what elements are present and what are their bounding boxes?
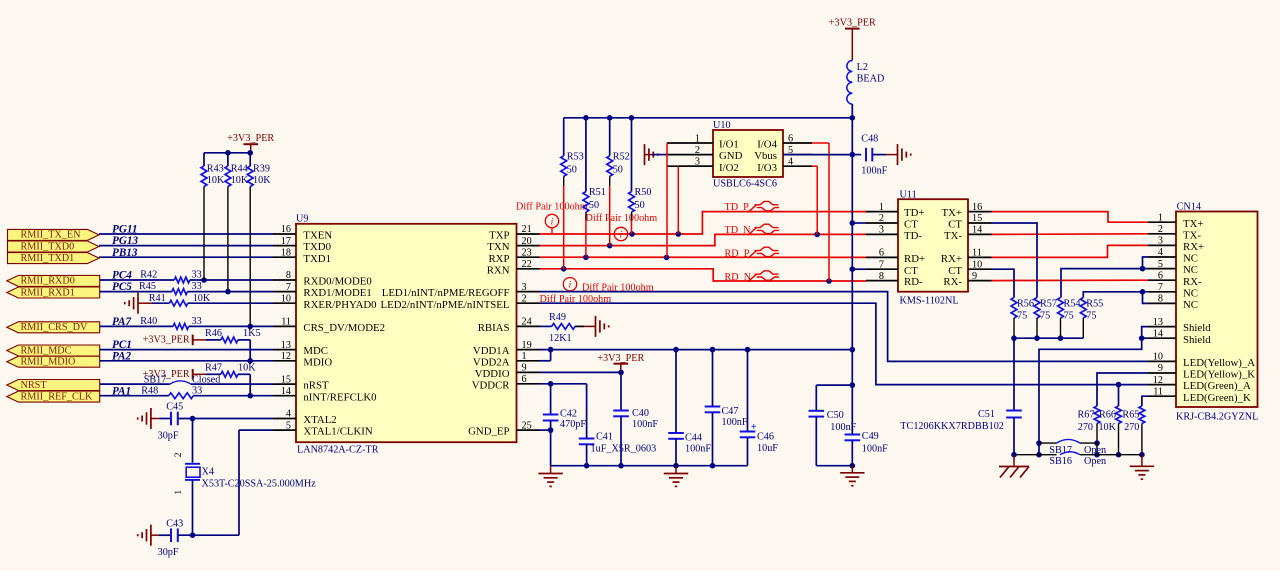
wire termination rail <box>564 115 853 121</box>
svg-text:U11: U11 <box>900 189 917 200</box>
resistor R43 10K <box>201 153 225 280</box>
ground (earth) under C49 <box>840 466 864 486</box>
svg-text:Open: Open <box>1084 456 1106 467</box>
power +3V3_PER (VDDIO) <box>597 353 644 373</box>
svg-text:CT: CT <box>948 265 962 277</box>
ground at C43 (earth) <box>138 525 159 546</box>
svg-text:LED(Green)_K: LED(Green)_K <box>1183 392 1251 404</box>
svg-text:15: 15 <box>281 374 291 385</box>
wire L2 to rails <box>850 104 856 157</box>
svg-text:R49: R49 <box>549 312 566 323</box>
svg-text:50: 50 <box>567 164 577 175</box>
svg-text:i: i <box>551 217 554 227</box>
wire U10 I/O1 to RD_P <box>666 143 668 257</box>
wire LED1 to LED(Yellow)_A <box>540 292 1149 362</box>
svg-text:CRS_DV/MODE2: CRS_DV/MODE2 <box>303 322 385 334</box>
svg-text:TD_P: TD_P <box>725 202 750 213</box>
wire Shield down <box>1036 338 1142 457</box>
svg-text:MDIO: MDIO <box>303 356 332 368</box>
svg-text:50: 50 <box>589 200 599 211</box>
svg-text:MDC: MDC <box>303 345 328 357</box>
svg-text:5: 5 <box>286 420 291 431</box>
ground (earth) under R65 <box>1130 455 1154 480</box>
svg-text:RXD0/MODE0: RXD0/MODE0 <box>303 276 371 288</box>
svg-text:R48: R48 <box>141 386 158 397</box>
svg-text:RBIAS: RBIAS <box>478 322 510 334</box>
svg-text:i: i <box>620 230 623 240</box>
svg-text:16: 16 <box>281 224 291 235</box>
resistor R42 33 <box>140 270 201 283</box>
svg-text:XTAL1/CLKIN: XTAL1/CLKIN <box>303 426 373 438</box>
capacitor C47 100nF <box>705 350 748 466</box>
capacitor C49 100nF <box>845 385 889 468</box>
resistor R50 50 <box>629 118 652 234</box>
svg-text:13: 13 <box>1153 317 1163 328</box>
diff pair marker 2 <box>586 213 658 241</box>
capacitor C44 100nF <box>668 350 711 466</box>
svg-text:6: 6 <box>879 248 884 259</box>
svg-text:i: i <box>569 281 572 291</box>
svg-text:VDDCR: VDDCR <box>472 379 511 391</box>
wire NC8 <box>1140 289 1148 303</box>
svg-text:14: 14 <box>281 386 291 397</box>
svg-text:CT: CT <box>904 219 918 231</box>
svg-text:C51: C51 <box>978 409 995 420</box>
svg-text:C43: C43 <box>166 519 183 530</box>
wire nRST left <box>100 383 170 385</box>
svg-text:C45: C45 <box>166 402 183 413</box>
svg-text:+3V3_PER: +3V3_PER <box>143 335 190 346</box>
svg-text:30pF: 30pF <box>158 430 179 441</box>
svg-text:9: 9 <box>1158 363 1163 374</box>
svg-text:R56: R56 <box>1017 299 1034 310</box>
port RMII_MDC <box>7 345 100 356</box>
svg-text:1: 1 <box>695 133 700 144</box>
svg-text:nRST: nRST <box>303 380 329 392</box>
ground at U10 pin2 (earth) <box>645 144 668 165</box>
wire RX+ <box>992 245 1149 257</box>
resistor R66 10K <box>1098 385 1121 458</box>
svg-text:RX-: RX- <box>943 276 962 288</box>
svg-text:20: 20 <box>522 236 532 247</box>
svg-text:RMII_MDC: RMII_MDC <box>21 345 72 356</box>
wire nRST right <box>191 383 273 385</box>
wire RX- <box>992 279 1149 281</box>
diff pair marker 1 <box>516 202 588 234</box>
wire VDD2A <box>540 350 551 361</box>
wire +3V3 vertical <box>850 155 856 353</box>
svg-text:6: 6 <box>522 374 527 385</box>
svg-text:33: 33 <box>192 316 202 327</box>
svg-text:10K: 10K <box>231 175 249 186</box>
svg-text:100nF: 100nF <box>722 417 748 428</box>
svg-text:TXD1: TXD1 <box>303 253 331 265</box>
net label PA2 <box>112 350 131 362</box>
op-amp CN14 KRJ-CB4.2GYZNL (RJ45) <box>1148 201 1258 422</box>
svg-text:RX+: RX+ <box>941 253 962 265</box>
svg-text:9: 9 <box>972 271 977 282</box>
svg-text:2: 2 <box>879 213 884 224</box>
ground at RXER (earth) <box>125 293 152 314</box>
wire XTAL2 + junction <box>180 416 273 422</box>
svg-text:RD-: RD- <box>904 276 923 288</box>
svg-text:VDD2A: VDD2A <box>473 356 510 368</box>
capacitor C42 470pF <box>543 384 587 466</box>
svg-text:50: 50 <box>635 200 645 211</box>
svg-text:100nF: 100nF <box>685 443 711 454</box>
capacitor C51 TC1206KKX7RDBB102 <box>900 338 1022 455</box>
svg-text:NRST: NRST <box>21 380 48 391</box>
svg-text:NC: NC <box>1183 287 1198 299</box>
svg-text:RX-: RX- <box>1183 276 1202 288</box>
capacitor C45 30pF <box>158 402 184 442</box>
wire TXD0 <box>99 245 273 247</box>
svg-text:R41: R41 <box>149 293 166 304</box>
capacitor C46 10uF <box>740 350 779 466</box>
svg-text:270: 270 <box>1078 422 1093 433</box>
svg-text:15: 15 <box>972 213 982 224</box>
svg-text:TD-: TD- <box>904 230 922 242</box>
svg-text:R65: R65 <box>1122 410 1139 421</box>
svg-text:10K: 10K <box>238 362 256 373</box>
svg-text:10K: 10K <box>1098 422 1116 433</box>
svg-text:Shield: Shield <box>1183 322 1211 334</box>
svg-text:17: 17 <box>281 236 291 247</box>
svg-text:3: 3 <box>522 282 527 293</box>
svg-text:GND: GND <box>719 150 743 162</box>
wire MDIO + junction R46 <box>100 358 273 364</box>
svg-text:XTAL2: XTAL2 <box>303 414 336 426</box>
resistor R55 75 <box>1080 298 1103 339</box>
svg-text:LED(Green)_A: LED(Green)_A <box>1183 380 1251 392</box>
svg-text:R57: R57 <box>1040 299 1057 310</box>
wire RD_P (RXP) <box>540 254 867 260</box>
resistor R41 10K <box>149 293 211 306</box>
svg-text:RMII_CRS_DV: RMII_CRS_DV <box>21 322 88 333</box>
svg-text:Vbus: Vbus <box>754 150 777 162</box>
svg-text:R67: R67 <box>1078 410 1095 421</box>
net label PC5 <box>112 281 132 293</box>
net label PC1 <box>112 339 132 351</box>
wire RD_N (RXN) <box>540 266 867 284</box>
svg-text:Closed: Closed <box>192 375 220 386</box>
wire pull-up rail <box>204 150 253 156</box>
svg-text:RD_P: RD_P <box>725 249 750 260</box>
net label PG11 <box>112 224 137 236</box>
wire C50 branch <box>816 350 855 388</box>
svg-text:TXN: TXN <box>487 241 509 253</box>
svg-text:100nF: 100nF <box>861 165 887 176</box>
svg-text:BEAD: BEAD <box>857 73 885 84</box>
resistor R65 270 <box>1122 396 1148 457</box>
resistor R40 33 <box>140 316 201 329</box>
svg-text:+3V3_PER: +3V3_PER <box>227 133 274 144</box>
svg-text:RXER/PHYAD0: RXER/PHYAD0 <box>303 299 376 311</box>
wire termination bottoms <box>1011 335 1083 341</box>
svg-text:LED(Yellow)_K: LED(Yellow)_K <box>1183 369 1255 381</box>
wire TD_N (TXN) <box>540 232 867 249</box>
svg-text:USBLC6-4SC6: USBLC6-4SC6 <box>713 179 777 190</box>
capacitor C50 100nF <box>809 385 857 466</box>
svg-text:I/O3: I/O3 <box>757 162 777 174</box>
port RMII_MDIO <box>7 356 100 367</box>
svg-text:270: 270 <box>1124 422 1139 433</box>
svg-text:C49: C49 <box>862 431 879 442</box>
resistor R39 10K <box>247 153 271 327</box>
svg-text:TD+: TD+ <box>904 207 924 219</box>
resistor R45 33 <box>139 281 202 294</box>
wire NC7 to R55 <box>1083 292 1148 298</box>
svg-text:+3V3_PER: +3V3_PER <box>829 17 876 28</box>
resistor R67 270 <box>1078 373 1148 458</box>
wire VDD rail <box>540 347 853 353</box>
svg-text:13: 13 <box>281 340 291 351</box>
op-amp U10 USBLC6-4SC6 (ESD) <box>667 120 812 190</box>
svg-text:6: 6 <box>788 133 793 144</box>
svg-text:KMS-1102NL: KMS-1102NL <box>900 295 959 306</box>
svg-text:4: 4 <box>286 409 291 420</box>
svg-text:VDDIO: VDDIO <box>475 368 510 380</box>
svg-text:TXP: TXP <box>489 230 509 242</box>
resistor R52 50 <box>607 118 630 246</box>
wire C43 to XTAL1 <box>180 430 273 538</box>
svg-text:470pF: 470pF <box>560 419 586 430</box>
wire R46 to MDIO <box>249 340 251 361</box>
svg-text:RMII_TXD0: RMII_TXD0 <box>21 241 75 252</box>
wire ground rail mid <box>551 463 748 469</box>
port RMII_REF_CLK <box>7 391 100 402</box>
wire VDDIO <box>540 370 624 376</box>
wire MDC <box>100 349 273 351</box>
svg-text:11: 11 <box>281 317 291 328</box>
svg-text:R46: R46 <box>205 328 222 339</box>
svg-text:VDD1A: VDD1A <box>473 345 510 357</box>
wire LED2 to LED(Green)_A <box>540 303 1149 387</box>
svg-text:LED(Yellow)_A: LED(Yellow)_A <box>1183 357 1255 369</box>
svg-text:RXN: RXN <box>487 264 510 276</box>
svg-text:I/O2: I/O2 <box>719 162 739 174</box>
svg-text:TX-: TX- <box>944 230 962 242</box>
svg-text:100nF: 100nF <box>632 419 658 430</box>
capacitor C41 1uF_X5R_0603 <box>579 384 656 466</box>
svg-text:75: 75 <box>1017 311 1027 322</box>
wire CT15 to R57 <box>992 223 1038 298</box>
svg-text:10: 10 <box>972 259 982 270</box>
svg-text:U10: U10 <box>713 120 731 131</box>
svg-text:C50: C50 <box>827 410 844 421</box>
label TD_N <box>725 224 780 236</box>
ground at R49 (earth) <box>584 316 609 337</box>
svg-text:U9: U9 <box>296 214 308 225</box>
svg-text:3: 3 <box>1158 236 1163 247</box>
svg-text:11: 11 <box>972 248 982 259</box>
svg-text:2: 2 <box>174 452 184 457</box>
wire RXD1 + junction R44 <box>100 289 273 295</box>
svg-text:7: 7 <box>879 259 884 270</box>
net label PB13 <box>112 247 138 259</box>
wire TD_P (TXP) <box>540 212 867 237</box>
label RD_N <box>725 271 780 283</box>
svg-text:TD_N: TD_N <box>725 225 752 236</box>
svg-text:11: 11 <box>1153 386 1163 397</box>
svg-text:TC1206KKX7RDBB102: TC1206KKX7RDBB102 <box>900 421 1004 432</box>
svg-text:R42: R42 <box>140 270 157 281</box>
svg-text:C46: C46 <box>757 432 774 443</box>
solder bridge SB16 Open <box>1014 452 1142 467</box>
svg-text:33: 33 <box>192 270 202 281</box>
op-amp U9 LAN8742A-CZ-TR (PHY IC) <box>273 214 540 456</box>
svg-text:10uF: 10uF <box>757 443 778 454</box>
wire C45 to crystal <box>192 419 194 463</box>
svg-text:KRJ-CB4.2GYZNL: KRJ-CB4.2GYZNL <box>1176 411 1258 422</box>
svg-text:10: 10 <box>1153 352 1163 363</box>
svg-text:21: 21 <box>522 224 532 235</box>
svg-text:Diff Pair 100ohm: Diff Pair 100ohm <box>586 213 658 224</box>
net label PC4 <box>112 270 132 282</box>
svg-text:RMII_TXD1: RMII_TXD1 <box>21 253 75 264</box>
svg-text:2: 2 <box>1158 224 1163 235</box>
resistor R49 12K1 <box>540 312 585 344</box>
power +3V3_PER (pull-ups) <box>227 133 274 153</box>
net label PA1 <box>112 385 131 397</box>
svg-text:4: 4 <box>1158 247 1163 258</box>
solder bridge SB17 Open <box>1039 439 1106 455</box>
resistor R51 50 <box>583 118 606 258</box>
svg-text:TX+: TX+ <box>1183 218 1203 230</box>
wire U11 CT7 <box>852 268 866 270</box>
svg-text:R54: R54 <box>1064 299 1081 310</box>
wire TXD1 <box>99 256 273 258</box>
svg-text:C48: C48 <box>861 134 878 145</box>
svg-text:X53T-C20SSA-25.000MHz: X53T-C20SSA-25.000MHz <box>202 479 317 490</box>
svg-text:R55: R55 <box>1086 299 1103 310</box>
wire VDDCR <box>540 381 587 387</box>
svg-text:30pF: 30pF <box>158 547 179 558</box>
svg-text:R66: R66 <box>1099 410 1116 421</box>
wire RXD0 + junction R43 <box>100 277 273 283</box>
svg-text:10: 10 <box>281 293 291 304</box>
svg-text:C47: C47 <box>722 406 739 417</box>
svg-text:1: 1 <box>1158 212 1163 223</box>
svg-text:1uF_X5R_0603: 1uF_X5R_0603 <box>591 443 657 454</box>
wire NC5 to R54 <box>1061 269 1148 298</box>
svg-text:12: 12 <box>281 351 291 362</box>
svg-text:14: 14 <box>972 225 982 236</box>
ground (earth) under C42 <box>538 466 562 487</box>
svg-text:9: 9 <box>522 363 527 374</box>
svg-text:3: 3 <box>879 225 884 236</box>
svg-text:7: 7 <box>1158 282 1163 293</box>
resistor R47 10K <box>205 362 256 377</box>
svg-text:RD+: RD+ <box>904 253 925 265</box>
svg-text:nINT/REFCLK0: nINT/REFCLK0 <box>303 391 376 403</box>
wire U10 Vbus to +3V3 <box>783 154 852 156</box>
wire Shield 13 <box>1139 327 1148 341</box>
svg-text:R53: R53 <box>567 151 584 162</box>
svg-text:R45: R45 <box>139 281 156 292</box>
svg-text:18: 18 <box>281 247 291 258</box>
svg-text:25: 25 <box>522 420 532 431</box>
svg-text:TX-: TX- <box>1183 229 1201 241</box>
svg-text:RMII_TX_EN: RMII_TX_EN <box>21 230 82 241</box>
svg-text:23: 23 <box>522 247 532 258</box>
svg-text:1: 1 <box>174 490 184 495</box>
inductor L2 BEAD <box>847 61 884 105</box>
port RMII_RXD1 <box>7 287 100 298</box>
svg-text:33: 33 <box>192 281 202 292</box>
wire U10 I/O3 to TD_N <box>812 166 817 234</box>
svg-text:C42: C42 <box>560 408 577 419</box>
svg-text:75: 75 <box>1064 311 1074 322</box>
resistor R54 75 <box>1058 298 1081 339</box>
svg-text:X4: X4 <box>202 467 214 478</box>
svg-text:75: 75 <box>1086 311 1096 322</box>
svg-text:12: 12 <box>1153 375 1163 386</box>
svg-text:R51: R51 <box>589 187 606 198</box>
svg-text:RMII_RXD0: RMII_RXD0 <box>21 276 75 287</box>
svg-text:RMII_REF_CLK: RMII_REF_CLK <box>21 391 94 402</box>
wire crystal to C43 <box>192 480 194 535</box>
svg-text:C40: C40 <box>632 408 649 419</box>
svg-text:R39: R39 <box>253 163 270 174</box>
svg-text:RX+: RX+ <box>1183 241 1204 253</box>
diff pair label 4 <box>540 294 612 305</box>
net label PG13 <box>112 235 139 247</box>
svg-text:+3V3_PER: +3V3_PER <box>597 353 644 364</box>
net label PA7 <box>112 316 131 328</box>
port RMII_CRS_DV <box>7 322 100 333</box>
wire NC4 <box>1140 257 1148 271</box>
wire U10 I/O4 to RD_N <box>812 143 829 281</box>
op-amp U11 KMS-1102NL (magnetics) <box>866 189 992 306</box>
svg-text:2: 2 <box>522 293 527 304</box>
svg-text:10K: 10K <box>207 175 225 186</box>
solder bridge SB17 Closed <box>144 375 221 386</box>
svg-text:NC: NC <box>1183 299 1198 311</box>
port RMII_RXD0 <box>7 275 100 286</box>
wire R47 to nINT <box>249 374 251 395</box>
wire GND_EP <box>540 427 554 433</box>
svg-text:R52: R52 <box>613 151 630 162</box>
svg-text:R47: R47 <box>205 362 222 373</box>
svg-text:CN14: CN14 <box>1177 201 1201 212</box>
port RMII_TX_EN <box>8 229 100 240</box>
svg-text:10K: 10K <box>193 293 211 304</box>
svg-text:16: 16 <box>972 202 982 213</box>
crystal X4 X53T-C20SSA-25.000MHz <box>174 452 316 494</box>
svg-text:I/O4: I/O4 <box>757 139 777 151</box>
svg-text:6: 6 <box>1158 270 1163 281</box>
svg-text:100nF: 100nF <box>862 443 888 454</box>
svg-text:NC: NC <box>1183 253 1198 265</box>
resistor R46 1K5 <box>205 328 261 343</box>
svg-text:12K1: 12K1 <box>549 333 572 344</box>
svg-text:8: 8 <box>1158 294 1163 305</box>
resistor R53 50 <box>561 118 584 269</box>
power +3V3_PER (top) <box>829 17 876 60</box>
svg-text:4: 4 <box>788 157 793 168</box>
wire U11 CT2 <box>852 222 866 224</box>
svg-text:SB16: SB16 <box>1049 456 1072 467</box>
port RMII_TXD0 <box>8 241 100 252</box>
wire U10 I/O2 to TD_P <box>678 166 713 234</box>
svg-text:R50: R50 <box>635 187 652 198</box>
svg-text:LED2/nINT/nPME/nINTSEL: LED2/nINT/nPME/nINTSEL <box>381 299 510 311</box>
svg-text:L2: L2 <box>857 62 868 73</box>
resistor R44 10K <box>225 153 249 292</box>
svg-text:22: 22 <box>522 259 532 270</box>
svg-text:8: 8 <box>879 271 884 282</box>
